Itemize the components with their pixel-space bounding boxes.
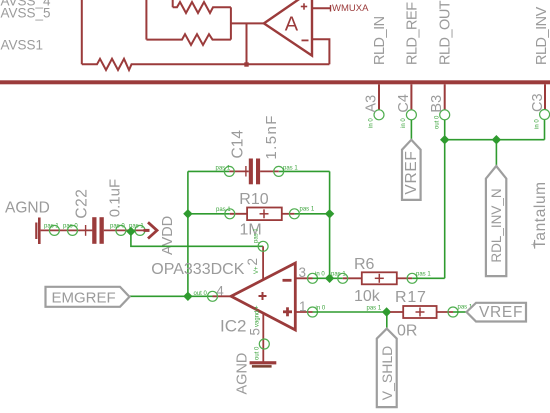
junction pin4 [183,292,192,301]
svg-text:out 0: out 0 [194,291,208,297]
op-amp A plus marker [301,3,307,9]
junction V_SHLD [382,307,391,316]
svg-text:V+: V+ [254,266,260,274]
pin circle B3 [440,110,450,120]
pin lead R10 right [282,213,295,215]
svg-text:AGND: AGND [235,353,251,395]
svg-text:A: A [285,14,299,36]
wire R10 row [188,213,230,215]
pin 2 red stub [262,246,264,280]
svg-text:AVSS_5: AVSS_5 [1,6,51,21]
pin circle A3 [374,110,384,120]
pin lead C14 right [260,170,279,172]
wire box right vertical [230,7,232,39]
wire pin1 to R17 [313,311,391,313]
pin stub C4 [410,84,412,110]
pin circle pin3 [308,273,318,283]
pin 4 output stub [213,295,232,297]
pin tick [330,5,332,12]
ground AGND bottom symbol [250,361,277,364]
svg-text:B3: B3 [429,95,445,113]
wire box left vertical [145,0,147,40]
pin stub A3 [378,84,380,110]
wire down to V_SHLD [386,312,388,329]
resistor R6 [362,272,397,284]
ground AGND left symbol [38,218,41,245]
supply arrow AVDD [144,229,150,232]
pin circle [135,225,145,235]
wire bottom horizontal with resistor [82,59,330,70]
svg-text:10k: 10k [354,288,381,305]
svg-text:pas 0: pas 0 [110,224,125,230]
svg-text:3: 3 [299,265,307,280]
wire R6 to B3 net [412,277,445,279]
capacitor C22 [92,217,96,244]
svg-text:5: 5 [248,328,263,336]
pin 3 stub [295,277,312,279]
svg-text:out 0: out 0 [435,115,441,129]
svg-text:AGND: AGND [5,200,50,217]
svg-text:C22: C22 [74,189,91,219]
pin circle [49,225,59,235]
junction pin3 [325,274,334,283]
svg-text:pas 1: pas 1 [283,166,298,172]
svg-text:pas 1: pas 1 [44,224,59,230]
svg-text:RDL_INV_N: RDL_INV_N [489,188,504,262]
svg-text:in 0: in 0 [316,306,326,312]
svg-text:pas 1: pas 1 [367,306,382,312]
svg-text:in 0: in 0 [315,272,325,278]
pin circle pin4 [208,291,218,301]
pin lead R17 right [437,311,453,313]
bus thick line [0,80,550,84]
pin circle pin1 [308,307,318,317]
svg-text:EMGREF: EMGREF [52,289,116,306]
svg-text:pas 1: pas 1 [216,166,231,172]
svg-text:C14: C14 [230,130,247,159]
wire C4 to VREF [410,120,412,140]
net flag V_SHLD [377,329,397,408]
junction B3 [440,135,449,144]
pin circle C4 [406,110,416,120]
wire AVDD branch to pin2 [131,231,263,246]
wire R17 to VREF [453,311,467,313]
svg-text:RLD_REF: RLD_REF [404,2,420,65]
pin circle C3 [540,110,550,120]
junction AVDD [126,227,135,236]
svg-text:V_SHLD: V_SHLD [379,346,395,400]
IC2 minus input marker [283,279,292,282]
wire B3 down [444,120,446,278]
resistor bottom [146,34,231,45]
svg-text:VREF: VREF [479,304,523,321]
junction R10 right [325,209,334,218]
svg-text:R10: R10 [239,191,268,208]
wire EMGREF net [130,295,213,297]
pin circle pin2 [258,241,268,251]
wire minus pin feedback [312,39,329,64]
svg-text:WMUXA: WMUXA [332,3,369,14]
pin 1 stub [295,311,312,313]
svg-text:0.1uF: 0.1uF [106,179,123,217]
svg-text:AVSS1: AVSS1 [1,38,44,53]
pin lead R6 left [343,277,362,279]
svg-text:RLD_INV: RLD_INV [534,6,550,65]
svg-text:C4: C4 [396,94,412,113]
net flag RDL_INV_N [486,166,506,276]
op-amp A minus marker [302,39,309,41]
pin lead C14 left [229,170,249,172]
pin circle R10 right [289,209,299,219]
pin circle C14 left [224,166,234,176]
svg-text:pas 1: pas 1 [216,207,231,213]
svg-text:+: + [531,240,536,249]
pin stub C3 [544,84,546,109]
pin circle [116,225,126,235]
lead tick [245,166,247,177]
wire C3 up [544,120,546,140]
junction RDL_INV_N [492,135,501,144]
svg-text:in 0: in 0 [535,119,541,129]
pin lead R17 left [390,311,403,313]
pin circle R10 left [225,209,235,219]
svg-text:4: 4 [216,284,224,299]
resistor top [173,2,231,13]
wire B3 horizontal [445,139,545,141]
resistor R10 [247,208,282,221]
pin circle R6 right [407,273,417,283]
pin circle C14 right [274,166,284,176]
svg-text:A3: A3 [364,95,380,113]
svg-text:VREF: VREF [403,150,420,194]
resistor R17 [403,306,436,318]
svg-text:pas 1: pas 1 [254,228,260,243]
net flag VREF top [402,140,421,200]
svg-text:OPA333DCK: OPA333DCK [151,261,244,278]
svg-text:in 0: in 0 [401,118,407,128]
svg-text:out 0: out 0 [255,346,261,360]
pin lead R6 right [397,277,412,279]
svg-text:R6: R6 [354,256,375,273]
svg-text:1.5nF: 1.5nF [263,114,280,159]
svg-text:RLD_IN: RLD_IN [372,16,388,65]
pin stub B3 [444,84,446,109]
wire pin3 to R6 [313,277,343,279]
svg-text:Tantalum: Tantalum [532,181,549,249]
op-amp A triangle [264,0,312,56]
svg-text:pas 1: pas 1 [300,207,315,213]
node junction dot [244,62,248,66]
wire output line [231,22,264,24]
pin 5 stub [262,313,264,363]
wire vertical to output [246,23,248,64]
wire left vertical net [187,171,189,296]
wire right vertical net [329,171,331,278]
pin circle [68,225,78,235]
svg-text:vagnd/+: vagnd/+ [255,305,261,327]
junction R10 left [183,209,192,218]
pin circle pin5 [259,339,269,349]
wire left vertical [81,0,83,64]
svg-text:AVDD: AVDD [160,216,176,255]
wire agnd to C22 [41,229,93,231]
wire C14 row [188,170,229,172]
lead tick [85,225,87,236]
svg-text:1: 1 [299,299,307,314]
svg-text:pas 1: pas 1 [416,272,431,278]
svg-text:pas 0: pas 0 [63,224,78,230]
svg-text:IC2: IC2 [220,317,246,336]
wire plus pin to WMUXA [312,7,331,9]
svg-text:in 0: in 0 [369,118,375,128]
IC2 plus input marker [283,307,292,316]
IC2 plus marker apex [259,292,267,300]
svg-text:R17: R17 [395,289,427,306]
op-amp IC2 triangle [231,263,295,330]
wire down to RDL_INV_N [495,140,497,166]
svg-text:C3: C3 [530,93,546,112]
capacitor C14 [249,159,253,185]
pin circle R17 right [448,307,458,317]
svg-text:2: 2 [245,258,260,266]
svg-text:0R: 0R [397,323,417,340]
wire top stub [172,0,174,7]
net flag EMGREF [46,287,130,307]
net flag VREF right [467,303,527,322]
wire C22 to AVDD [104,229,146,231]
svg-text:RLD_OUT: RLD_OUT [438,0,454,65]
pin lead R10 left [230,213,247,215]
pin circle R6 left [338,273,348,283]
